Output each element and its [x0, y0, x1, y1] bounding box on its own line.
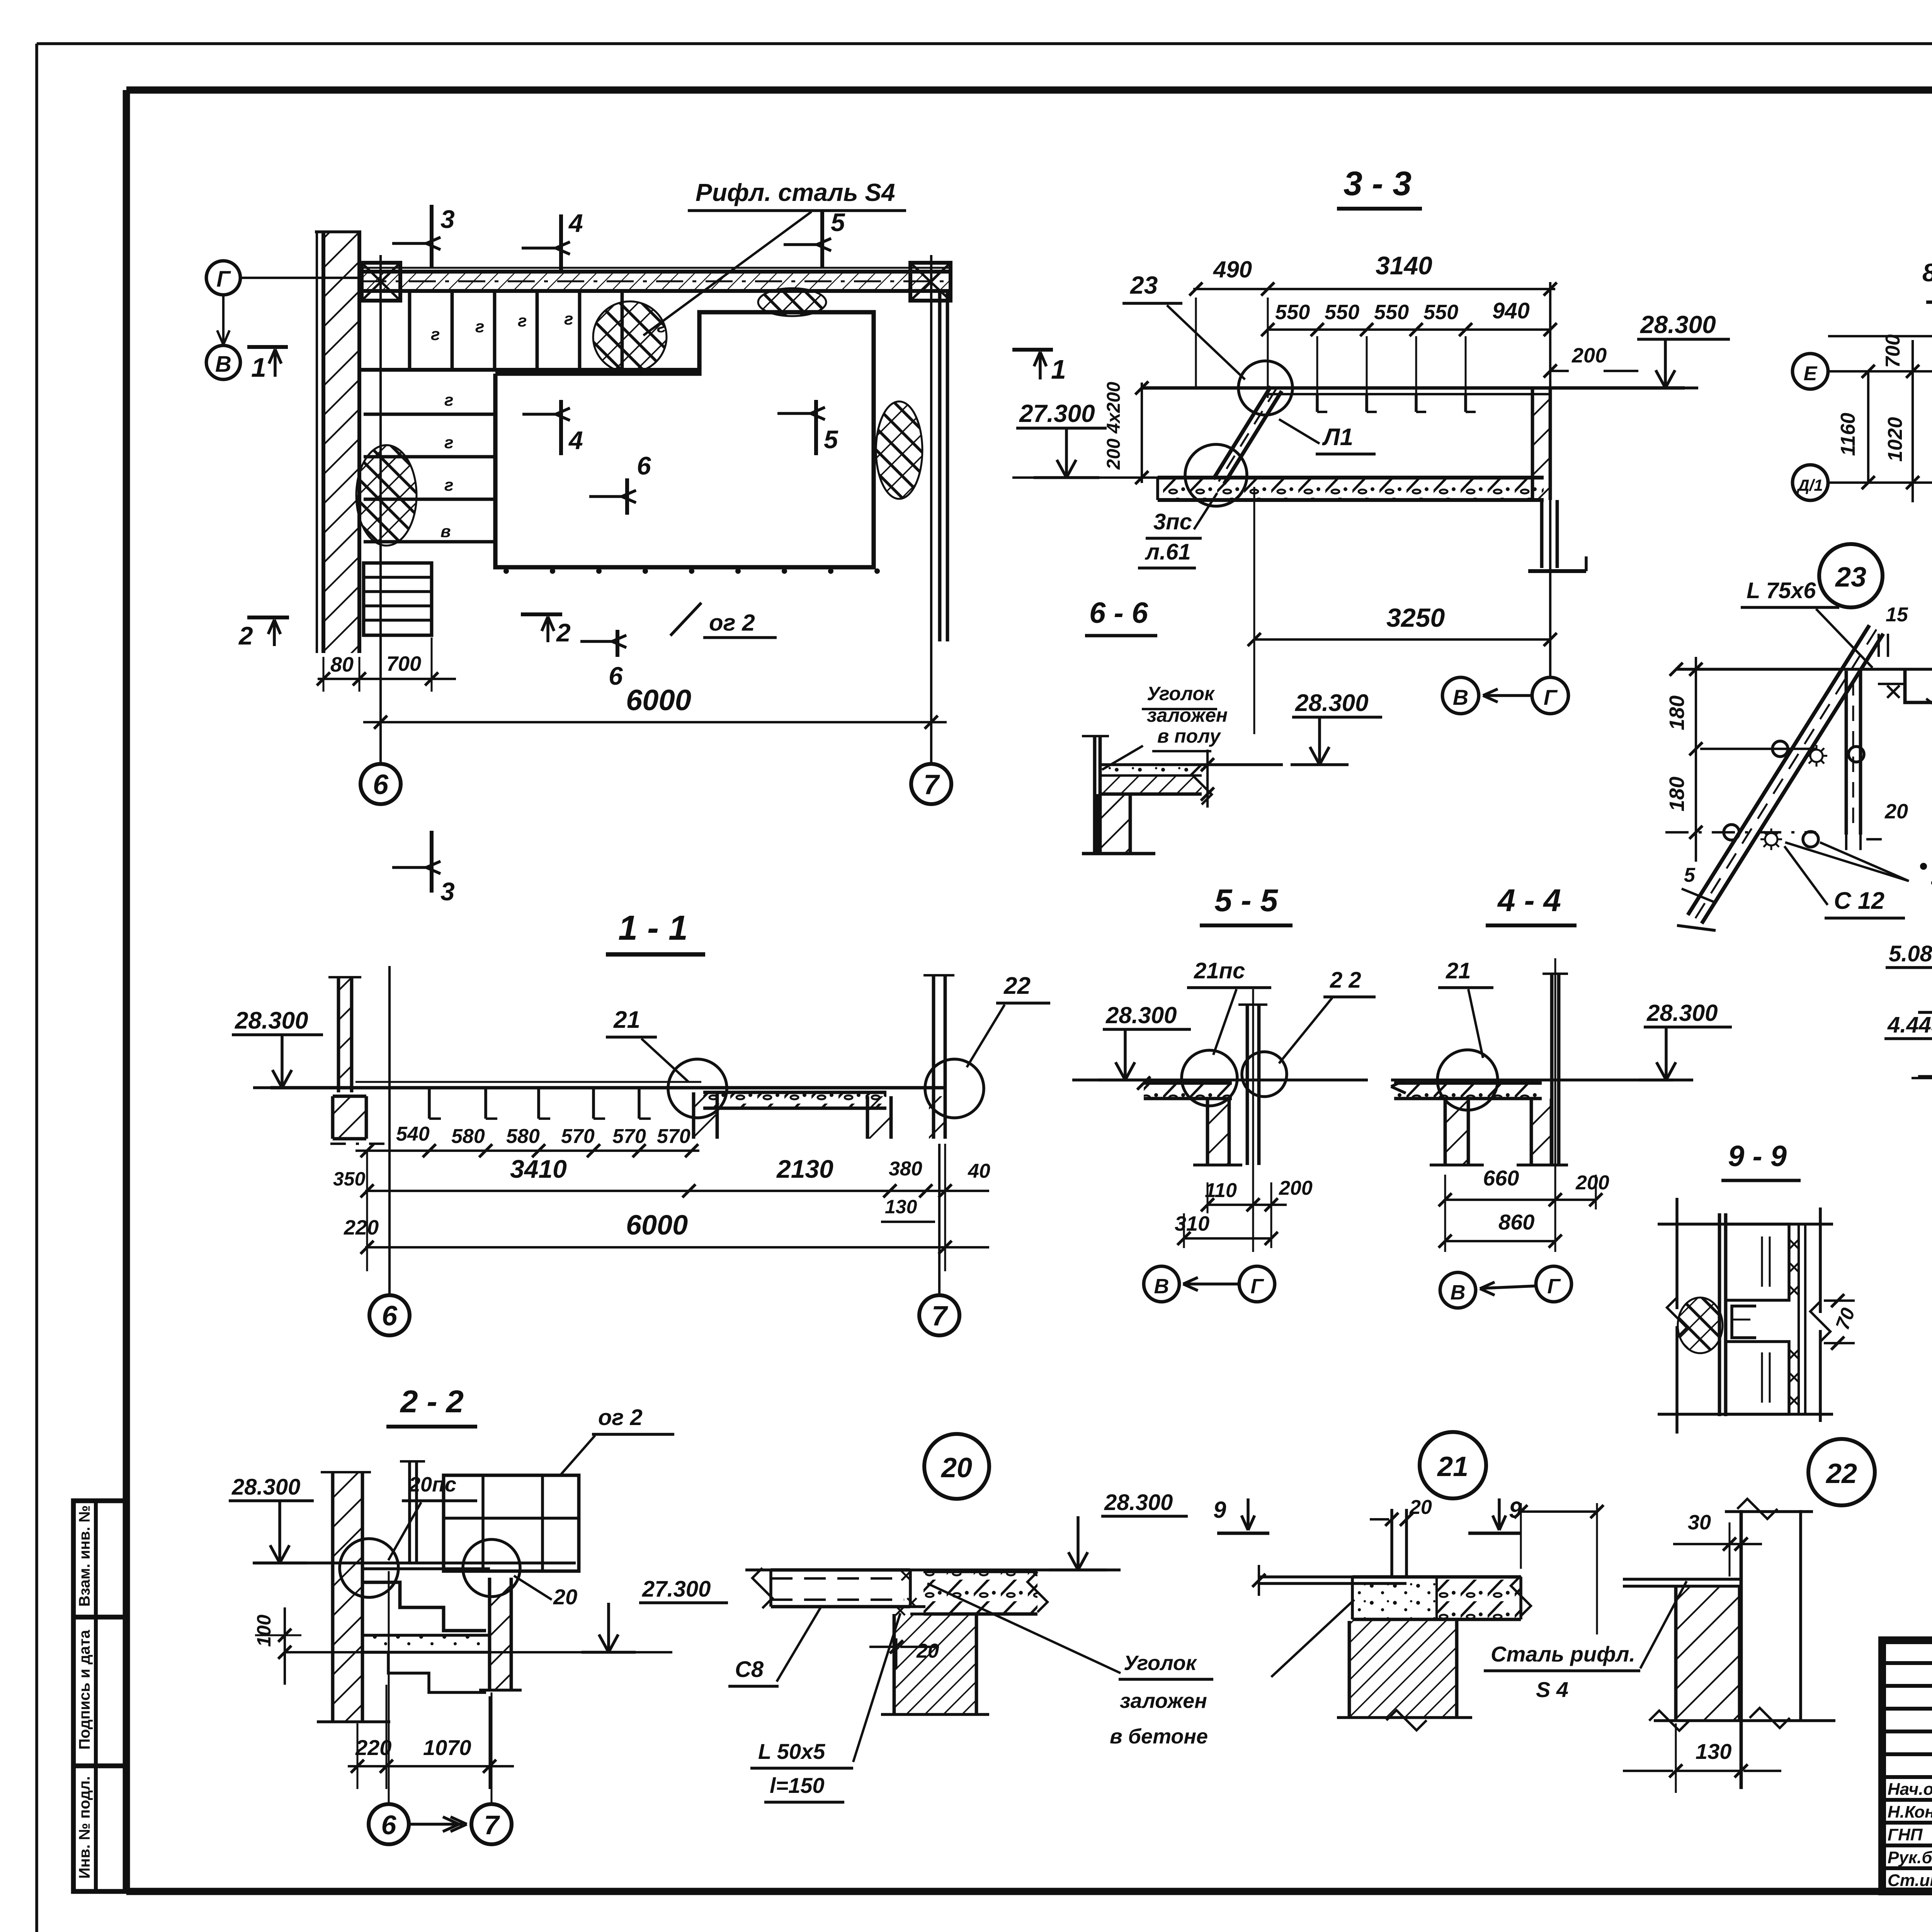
dim row 490 3140 [1193, 288, 1555, 290]
svg-text:ГНП: ГНП [1888, 1825, 1923, 1844]
svg-text:490: 490 [1213, 257, 1252, 282]
svg-text:л.61: л.61 [1145, 539, 1191, 565]
3-3 floor slab [1158, 478, 1544, 500]
svg-text:380: 380 [889, 1158, 922, 1180]
5-5 wall post [1207, 1099, 1229, 1165]
svg-text:В: В [1451, 1281, 1466, 1304]
3-3 top chord [1142, 386, 1685, 390]
svg-text:5: 5 [1684, 864, 1696, 886]
svg-text:580: 580 [506, 1125, 540, 1148]
detail 20 balloon [924, 1434, 989, 1499]
column squares [362, 263, 400, 301]
svg-text:28.300: 28.300 [231, 1475, 300, 1500]
svg-text:Подпись и дата: Подпись и дата [76, 1629, 93, 1750]
svg-text:1: 1 [1051, 354, 1066, 384]
9-9 crosshatch [1678, 1298, 1723, 1353]
drawing frame (thick) [126, 87, 1932, 94]
svg-text:28.300: 28.300 [1295, 690, 1369, 716]
2-2 fence post verticals [408, 1461, 411, 1563]
section flag 5 mid [814, 400, 818, 455]
svg-text:S 4: S 4 [1536, 1677, 1568, 1702]
svg-text:700: 700 [386, 652, 421, 675]
svg-text:3140: 3140 [1376, 251, 1432, 280]
svg-text:200: 200 [1575, 1172, 1609, 1194]
3-3 detail circle top [1238, 361, 1293, 415]
23 top platform line [1676, 668, 1932, 671]
4-4 slab [1394, 1083, 1542, 1099]
svg-text:15: 15 [1886, 604, 1908, 626]
svg-text:г: г [431, 325, 440, 344]
9-9 right line [1819, 1207, 1822, 1313]
svg-text:Рук.бр.: Рук.бр. [1888, 1848, 1932, 1867]
3-3 fence post hooks [1316, 394, 1319, 412]
4-4 wall posts [1445, 1099, 1468, 1165]
svg-text:Л1: Л1 [1322, 424, 1353, 451]
svg-text:2: 2 [556, 618, 571, 647]
crosshatch blob top-right [758, 288, 826, 316]
crosshatch blob top-center [593, 301, 667, 372]
svg-text:4 - 4: 4 - 4 [1497, 883, 1561, 918]
bottom edge dots [503, 568, 509, 574]
23 dims 180 180 [1695, 657, 1697, 862]
dim 6000 [363, 721, 947, 723]
5-5 axes V G [1144, 1266, 1179, 1302]
svg-text:1020: 1020 [1884, 417, 1906, 462]
section flag 2 left [247, 616, 289, 619]
svg-text:Г: Г [1250, 1275, 1264, 1298]
svg-text:г: г [475, 317, 484, 336]
svg-text:7: 7 [932, 1301, 948, 1332]
section mark 1 left [247, 345, 288, 349]
sheet outer thin border [37, 42, 1932, 45]
2-2 slab lines [362, 1634, 490, 1637]
svg-text:заложен: заложен [1120, 1689, 1207, 1713]
svg-text:200: 200 [1279, 1177, 1313, 1199]
2-2 right hatched post [490, 1578, 511, 1690]
6-6 wall post [1093, 736, 1097, 855]
svg-text:3: 3 [440, 877, 455, 906]
6-6 topping [1100, 765, 1202, 776]
svg-text:Нач.отд: Нач.отд [1888, 1780, 1932, 1799]
22 top bar [1725, 1510, 1813, 1513]
1-1 left support block [333, 1096, 366, 1139]
1-1 detail circle 22 [925, 1059, 984, 1118]
1-1 top chord [270, 1086, 945, 1090]
svg-text:21пс: 21пс [1194, 958, 1245, 983]
svg-text:г: г [444, 391, 453, 410]
svg-text:27.300: 27.300 [642, 1577, 711, 1602]
svg-text:310: 310 [1175, 1212, 1209, 1235]
svg-text:700: 700 [1882, 334, 1904, 368]
2-2 level line [255, 1561, 576, 1565]
svg-text:В: В [1154, 1275, 1169, 1298]
1-1 axes 6,7 [388, 966, 391, 1295]
4-4 axes V G [1440, 1272, 1476, 1308]
1-1 detail circle 21 [668, 1059, 727, 1118]
9-9 left break line [1675, 1198, 1679, 1309]
2-2 fence grid plan [444, 1475, 579, 1571]
svg-text:С 12: С 12 [1834, 888, 1884, 914]
2-2 detail circles [340, 1539, 398, 1597]
9-9 wall double line [1718, 1213, 1721, 1416]
9-9 channel bracket [1732, 1306, 1756, 1338]
top beam [359, 272, 949, 291]
svg-text:9: 9 [1213, 1497, 1226, 1523]
svg-text:С8: С8 [735, 1657, 764, 1682]
svg-text:940: 940 [1492, 298, 1530, 323]
svg-text:7: 7 [923, 769, 940, 800]
svg-text:5: 5 [824, 425, 838, 454]
svg-text:Уголок: Уголок [1147, 683, 1215, 704]
svg-text:660: 660 [1483, 1166, 1519, 1190]
2-2 axes 6-7 [388, 1571, 390, 1804]
section flag 6 mid [625, 478, 629, 515]
8-8 bottom level line [1912, 1077, 1932, 1079]
svg-text:9 - 9: 9 - 9 [1728, 1140, 1787, 1173]
svg-text:6: 6 [382, 1301, 398, 1332]
svg-text:г: г [444, 433, 453, 452]
svg-text:130: 130 [1696, 1739, 1731, 1764]
svg-text:l=150: l=150 [770, 1773, 825, 1798]
svg-text:6: 6 [373, 769, 389, 800]
20 concrete slab [923, 1571, 1037, 1614]
23 rungs [1772, 741, 1788, 757]
svg-text:3410: 3410 [510, 1155, 567, 1183]
svg-text:4: 4 [568, 426, 583, 454]
detail 21 balloon [1420, 1432, 1486, 1498]
4-4 fence post [1550, 974, 1554, 1165]
svg-text:21: 21 [1437, 1451, 1468, 1482]
svg-text:80: 80 [330, 653, 354, 676]
3-3 axis line G down [1549, 282, 1551, 676]
svg-text:3пс: 3пс [1153, 509, 1192, 534]
svg-text:Г: Г [1547, 1275, 1561, 1298]
title block (stamp) [1882, 1640, 1932, 1891]
svg-text:1: 1 [251, 352, 266, 383]
6-6 column [1097, 794, 1130, 854]
22 plate [1623, 1578, 1740, 1581]
svg-text:30: 30 [1688, 1511, 1711, 1534]
svg-text:20: 20 [1884, 800, 1908, 823]
svg-text:28.300: 28.300 [1646, 1000, 1718, 1026]
svg-text:6: 6 [637, 451, 651, 480]
6-6 dim ext [1206, 750, 1209, 808]
svg-text:21: 21 [1446, 958, 1471, 983]
svg-text:3: 3 [440, 205, 455, 233]
svg-text:Ст.инж.: Ст.инж. [1888, 1871, 1932, 1890]
svg-text:350: 350 [333, 1168, 366, 1190]
svg-text:22: 22 [1003, 973, 1031, 999]
svg-text:110: 110 [1205, 1179, 1237, 1202]
9-9 dim 70 [1824, 1299, 1855, 1302]
section flag 4 top [559, 214, 563, 270]
5-5 slab [1144, 1083, 1232, 1099]
svg-text:200: 200 [1571, 344, 1607, 367]
svg-text:ог 2: ог 2 [709, 610, 755, 636]
svg-text:180: 180 [1665, 696, 1689, 730]
section flag 2 mid [521, 612, 562, 616]
axis V circle [206, 345, 240, 379]
23 ladder stringers [1688, 625, 1869, 915]
svg-text:г: г [564, 310, 573, 328]
svg-text:1160: 1160 [1837, 413, 1859, 456]
9-9 top and bottom lines [1658, 1223, 1833, 1226]
2-2 steps [362, 1582, 486, 1631]
svg-text:6 - 6: 6 - 6 [1089, 597, 1148, 629]
svg-text:7: 7 [484, 1810, 500, 1840]
svg-text:20: 20 [940, 1452, 972, 1483]
svg-text:В: В [1453, 685, 1468, 709]
2-2 lower step outline [362, 1652, 486, 1692]
3-3 right wall [1532, 388, 1550, 500]
svg-text:28.300: 28.300 [1104, 1490, 1173, 1515]
1-1 dim row 6000 [365, 1246, 989, 1248]
svg-text:6: 6 [609, 662, 623, 690]
crosshatch blob right [876, 401, 922, 499]
room outline [495, 312, 874, 567]
svg-text:580: 580 [451, 1125, 485, 1148]
4-4 level line [1391, 1078, 1673, 1082]
1-1 fence post right [932, 975, 935, 1139]
svg-text:Г: Г [216, 267, 231, 292]
svg-text:28.300: 28.300 [1640, 311, 1716, 338]
3-3 detail circle bottom [1185, 444, 1247, 506]
svg-text:в: в [440, 522, 451, 541]
svg-text:6000: 6000 [626, 684, 691, 717]
plan right wall line [938, 291, 942, 641]
svg-text:2 - 2: 2 - 2 [400, 1384, 464, 1419]
20 corner angle [909, 1570, 912, 1607]
3-3 ladder L1 [1213, 386, 1271, 479]
svg-text:550: 550 [1325, 301, 1359, 324]
svg-text:г: г [518, 311, 527, 330]
22 hatched column [1676, 1586, 1740, 1721]
svg-text:180: 180 [1665, 777, 1689, 811]
crosshatch blob left [356, 445, 417, 546]
22 verticals [1740, 1510, 1743, 1789]
detail 23 balloon [1819, 544, 1883, 607]
dim 80 700 [318, 678, 456, 680]
svg-text:Взам. инв. №: Взам. инв. № [76, 1505, 93, 1607]
svg-text:550: 550 [1374, 301, 1409, 324]
1-1 strut dim line [355, 1150, 699, 1152]
top stair flight steps [408, 291, 412, 370]
axis D/1 [1793, 465, 1828, 500]
5-5 fence post [1246, 1005, 1249, 1165]
svg-text:100: 100 [253, 1614, 275, 1647]
svg-text:23: 23 [1835, 562, 1866, 593]
svg-text:27.300: 27.300 [1019, 400, 1095, 427]
axis 6 line and circle [379, 255, 382, 764]
svg-text:8: 8 [1922, 258, 1932, 287]
svg-text:в бетоне: в бетоне [1110, 1725, 1208, 1748]
svg-text:В: В [215, 352, 231, 377]
21 plate [1259, 1575, 1406, 1578]
6-6 slab [1100, 776, 1202, 794]
svg-text:Сталь рифл.: Сталь рифл. [1491, 1642, 1635, 1666]
9-9 second layer lines [1798, 1224, 1800, 1414]
svg-text:1 - 1: 1 - 1 [618, 909, 688, 947]
svg-text:860: 860 [1498, 1210, 1534, 1234]
svg-text:г: г [444, 476, 453, 495]
svg-text:6000: 6000 [626, 1210, 688, 1241]
dim row 550x4 940 [1268, 328, 1550, 331]
2-2 left wall [333, 1472, 362, 1722]
5-5 level line [1072, 1078, 1368, 1082]
wall (hatched) [323, 232, 359, 653]
5-5 detail circles [1182, 1050, 1237, 1106]
section flag 3 bottom [430, 831, 434, 893]
svg-text:ог 2: ог 2 [598, 1405, 643, 1430]
svg-text:220: 220 [344, 1216, 379, 1239]
left margin stamp strip [73, 1501, 128, 1891]
4-4 detail circle 21 [1437, 1050, 1498, 1110]
svg-text:540: 540 [396, 1123, 430, 1145]
svg-text:2: 2 [238, 621, 253, 650]
1-1 wall columns right [694, 1092, 717, 1139]
svg-text:200 4х200: 200 4х200 [1104, 382, 1124, 470]
23 label f18 [1920, 863, 1927, 870]
svg-text:в полу: в полу [1157, 725, 1221, 747]
svg-text:4.445: 4.445 [1887, 1012, 1932, 1037]
axis G circle [206, 261, 240, 295]
svg-text:570: 570 [657, 1125, 690, 1148]
svg-text:1070: 1070 [423, 1735, 471, 1760]
axis 7 line and circle [930, 255, 932, 764]
svg-text:Инв. № подл.: Инв. № подл. [76, 1776, 93, 1879]
section flag 4 mid [559, 400, 563, 455]
9-9 panels [1726, 1224, 1789, 1300]
svg-text:28.300: 28.300 [235, 1007, 308, 1034]
21 concrete [1352, 1577, 1437, 1619]
svg-text:L 50х5: L 50х5 [758, 1739, 825, 1764]
svg-text:28.300: 28.300 [1105, 1002, 1177, 1028]
svg-text:570: 570 [561, 1125, 595, 1148]
20 channel C8 [771, 1568, 910, 1572]
svg-text:20: 20 [916, 1640, 939, 1662]
dim 3250 [1254, 638, 1550, 641]
svg-text:Г: Г [1544, 685, 1558, 709]
section flag 3 top [430, 205, 434, 269]
detail balloon 22 [1808, 1439, 1875, 1505]
21 column [1349, 1621, 1457, 1718]
svg-text:3250: 3250 [1386, 603, 1445, 633]
23 top angle [1905, 669, 1932, 723]
lower stair steps [364, 413, 495, 416]
svg-text:Уголок: Уголок [1124, 1651, 1197, 1675]
23 channel vertical [1845, 671, 1848, 835]
21 leader from ugolok [1271, 1600, 1354, 1677]
svg-text:Н.Контр.: Н.Контр. [1888, 1803, 1932, 1821]
svg-text:570: 570 [612, 1125, 646, 1148]
svg-text:5: 5 [831, 208, 845, 236]
svg-text:Д/1: Д/1 [1796, 476, 1823, 494]
svg-text:22: 22 [1825, 1458, 1857, 1489]
svg-text:130: 130 [885, 1196, 917, 1218]
og2 label on plan [670, 603, 701, 636]
1-1 right slab [703, 1092, 886, 1108]
20 column [894, 1614, 976, 1714]
svg-text:23: 23 [1130, 271, 1158, 299]
1-1 left wall [338, 977, 352, 1092]
svg-text:21: 21 [613, 1007, 640, 1033]
svg-text:6: 6 [381, 1810, 397, 1840]
21 dim verticals [1520, 1503, 1522, 1569]
svg-text:550: 550 [1275, 301, 1310, 324]
svg-text:Рифл. сталь S4: Рифл. сталь S4 [696, 179, 895, 206]
section flag 6 low [616, 630, 619, 657]
svg-text:550: 550 [1423, 301, 1458, 324]
svg-text:40: 40 [968, 1160, 990, 1182]
svg-text:5 - 5: 5 - 5 [1214, 883, 1278, 918]
section flag 5 top [820, 211, 824, 269]
2-2 lower level line [285, 1651, 672, 1653]
6-6 floor level [1099, 763, 1283, 766]
svg-text:заложен: заложен [1147, 704, 1228, 726]
svg-text:20: 20 [553, 1585, 577, 1609]
svg-text:5.085: 5.085 [1889, 941, 1932, 966]
1-1 dim row 3410 2130 380 40 [365, 1190, 989, 1192]
section mark 1 right [1012, 348, 1053, 352]
axis E [1793, 354, 1828, 389]
1-1 struts [428, 1088, 431, 1119]
svg-text:4: 4 [568, 209, 583, 237]
svg-text:2130: 2130 [776, 1155, 833, 1183]
svg-text:3 - 3: 3 - 3 [1344, 164, 1412, 202]
21 post stub [1390, 1509, 1393, 1577]
svg-text:2 2: 2 2 [1330, 968, 1361, 993]
svg-text:Е: Е [1804, 362, 1818, 385]
21 mark 9 right [1498, 1498, 1501, 1527]
axes V-G of 3-3 [1442, 677, 1479, 714]
lower small stair [364, 563, 432, 635]
svg-text:L 75х6: L 75х6 [1747, 578, 1816, 603]
22 bottom line [1654, 1719, 1835, 1722]
20 level line [745, 1568, 1121, 1571]
